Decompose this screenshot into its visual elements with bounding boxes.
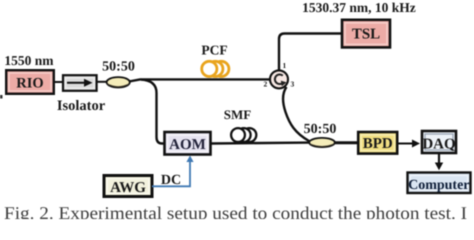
svg-text:AWG: AWG [110, 180, 146, 196]
svg-text:PCF: PCF [201, 43, 227, 58]
svg-text:AOM: AOM [169, 137, 206, 153]
svg-text:Fig. 2. Experimental setup us: Fig. 2. Experimental setup used to condu… [4, 203, 467, 219]
svg-text:SMF: SMF [224, 107, 252, 122]
svg-text:TSL: TSL [352, 27, 380, 43]
svg-text:BPD: BPD [363, 136, 393, 152]
svg-text:DC: DC [161, 173, 181, 188]
svg-text:2: 2 [264, 80, 268, 89]
svg-text:1: 1 [283, 61, 287, 70]
svg-text:Isolator: Isolator [57, 98, 106, 114]
svg-text:1550 nm: 1550 nm [4, 53, 54, 68]
svg-text:1530.37 nm, 10 kHz: 1530.37 nm, 10 kHz [302, 0, 416, 15]
svg-text:RIO: RIO [16, 76, 43, 92]
svg-text:50:50: 50:50 [102, 60, 135, 75]
svg-text:Computer: Computer [408, 178, 469, 193]
svg-text:3: 3 [291, 80, 295, 89]
svg-text:50:50: 50:50 [304, 122, 337, 137]
svg-text:DAQ: DAQ [422, 137, 456, 153]
